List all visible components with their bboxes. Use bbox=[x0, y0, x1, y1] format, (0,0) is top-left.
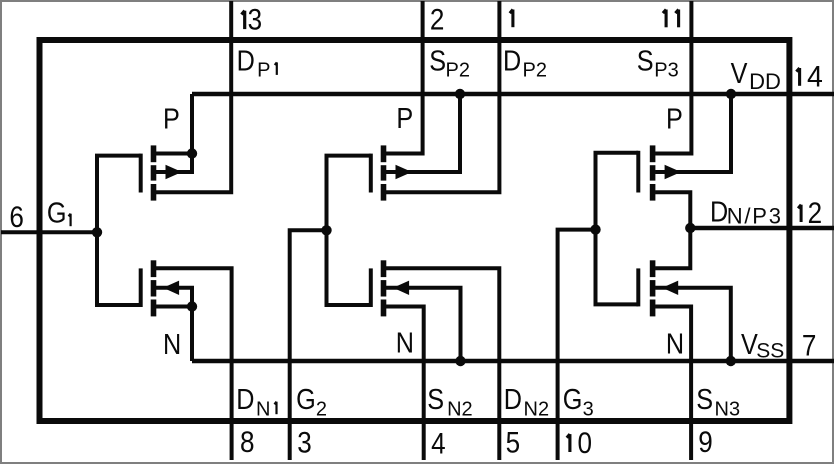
svg-text:P: P bbox=[257, 59, 270, 81]
svg-text:V: V bbox=[731, 56, 748, 89]
svg-text:N: N bbox=[163, 327, 181, 360]
svg-text:0: 0 bbox=[578, 426, 593, 459]
svg-text:2: 2 bbox=[808, 196, 823, 229]
svg-text:G: G bbox=[563, 383, 583, 416]
svg-text:N: N bbox=[666, 327, 684, 360]
svg-text:D: D bbox=[236, 383, 254, 416]
svg-text:P: P bbox=[163, 102, 180, 135]
svg-text:N: N bbox=[256, 398, 270, 420]
svg-text:3: 3 bbox=[583, 398, 594, 420]
svg-text:3: 3 bbox=[297, 426, 312, 459]
svg-text:N: N bbox=[396, 326, 414, 359]
svg-text:6: 6 bbox=[9, 201, 24, 234]
svg-text:SS: SS bbox=[756, 339, 784, 362]
svg-text:2: 2 bbox=[430, 3, 445, 36]
svg-text:D: D bbox=[503, 44, 521, 77]
svg-text:4: 4 bbox=[431, 427, 446, 460]
svg-text:D: D bbox=[237, 44, 255, 77]
svg-text:P: P bbox=[666, 102, 683, 135]
svg-text:G: G bbox=[47, 196, 67, 229]
svg-text:D: D bbox=[504, 383, 522, 416]
svg-text:P2: P2 bbox=[523, 59, 547, 81]
svg-text:S: S bbox=[696, 383, 713, 416]
svg-text:3: 3 bbox=[248, 3, 263, 36]
svg-text:N2: N2 bbox=[447, 398, 473, 420]
svg-text:9: 9 bbox=[698, 425, 713, 458]
svg-text:P2: P2 bbox=[446, 59, 470, 81]
svg-text:DD: DD bbox=[749, 69, 781, 94]
svg-text:N3: N3 bbox=[715, 398, 741, 420]
svg-text:G: G bbox=[296, 383, 316, 416]
svg-text:V: V bbox=[741, 327, 758, 360]
svg-text:2: 2 bbox=[316, 398, 327, 420]
svg-text:P: P bbox=[396, 101, 413, 134]
svg-text:D: D bbox=[710, 195, 728, 228]
svg-text:N2: N2 bbox=[524, 398, 550, 420]
svg-text:P3: P3 bbox=[654, 59, 678, 81]
svg-text:4: 4 bbox=[807, 61, 823, 94]
svg-text:S: S bbox=[427, 383, 444, 416]
svg-text:8: 8 bbox=[240, 426, 255, 459]
svg-text:S: S bbox=[429, 44, 446, 77]
svg-text:5: 5 bbox=[506, 426, 521, 459]
svg-text:7: 7 bbox=[802, 329, 817, 362]
svg-text:N/P3: N/P3 bbox=[727, 203, 783, 228]
svg-text:S: S bbox=[637, 44, 654, 77]
